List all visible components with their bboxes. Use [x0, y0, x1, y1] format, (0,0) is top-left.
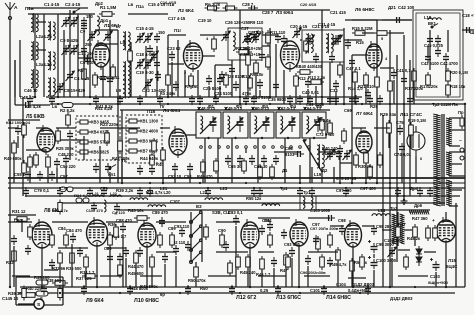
svg-text:Пр: Пр [458, 110, 464, 115]
junction 8 [269, 96, 271, 98]
IF cell box 2 [223, 112, 248, 138]
junction bead 36 [414, 286, 416, 288]
capacitor box C45b [435, 35, 441, 45]
diagonal arrow detector [303, 140, 322, 172]
resistor R13 2.2k [308, 80, 324, 85]
trimmer C15 4-15 [137, 33, 143, 43]
junction bead 3 [139, 103, 141, 105]
wire stub top 5 [77, 14, 79, 97]
resistor R47b [284, 252, 289, 268]
wire stub top 21 [259, 90, 261, 97]
junction bead 35 [367, 286, 369, 288]
capacitor fill 9 [329, 53, 335, 63]
wire run 22 [352, 54, 368, 56]
wire run 40 [8, 221, 32, 223]
svg-text:R17 220к: R17 220к [420, 84, 438, 89]
wire run 60 [44, 269, 58, 271]
wire stub top 23 [283, 70, 285, 104]
trimmer in T1 [335, 35, 341, 45]
resistor R10 470k [248, 75, 253, 91]
output transformer core [397, 212, 399, 246]
switch riser [195, 262, 197, 270]
resistor KB40 [297, 70, 313, 75]
capacitor fill 23 [157, 95, 163, 105]
wire left vertical from antenna [9, 20, 11, 287]
svg-text:R34 4,7к L20: R34 4,7к L20 [146, 190, 171, 195]
svg-text:R36: R36 [108, 222, 116, 227]
svg-text:L2а L2б: L2а L2б [36, 34, 52, 39]
capacitor C71 [336, 150, 342, 160]
svg-text:С42 100: С42 100 [398, 5, 415, 10]
wire stub bottom 26 [337, 261, 339, 287]
wire stub bottom 22 [285, 266, 287, 287]
switch BK1 [431, 24, 438, 29]
capacitor C84 470 [70, 233, 76, 243]
switch ladder wire b [201, 212, 203, 262]
wire run 9 [168, 34, 186, 36]
wire vertical x383 [382, 115, 384, 287]
svg-text:КВ2 4600: КВ2 4600 [140, 129, 159, 134]
junction bead 7 [269, 103, 271, 105]
wire stub bottom 11 [135, 264, 137, 287]
wire run 48 [362, 225, 374, 227]
wire run 63 [208, 275, 236, 277]
wire run 4 [60, 13, 74, 15]
wire run 42 [106, 221, 138, 223]
svg-text:С75: С75 [396, 120, 404, 125]
capacitor extra 3 [25, 171, 31, 181]
wire stub mid 4 [47, 168, 49, 183]
wire vertical x390 [389, 30, 391, 287]
wire stub top 33 [427, 46, 429, 58]
wire stub bottom 35 [445, 242, 447, 287]
IF cell box 3 [250, 112, 274, 138]
svg-text:КВ5 5700: КВ5 5700 [91, 140, 110, 145]
wire stub bottom 24 [298, 246, 300, 287]
wire run 30 [60, 139, 84, 141]
svg-text:С100 3000: С100 3000 [376, 258, 397, 263]
capacitor C45 0.025 [427, 35, 433, 45]
wire stub top 15 [197, 70, 199, 97]
capacitor bus top 9 [377, 95, 383, 105]
wire stub bottom 17 [235, 226, 237, 287]
wire run 12 [202, 55, 215, 57]
svg-text:+: + [432, 219, 435, 224]
svg-text:С90: С90 [218, 228, 226, 233]
wire stub mid 23 [388, 134, 390, 148]
wire run 26 [26, 149, 46, 151]
wire stub top 10 [145, 46, 147, 97]
capacitor C85 [77, 247, 83, 257]
power transformer Tr2 secondary 1 [446, 118, 452, 146]
tube L3 6K4 [281, 38, 300, 72]
svg-text:С80: С80 [14, 218, 22, 223]
coil in box [233, 32, 235, 50]
junction 23 [298, 286, 300, 288]
resistor R26 [28, 154, 33, 170]
wire vertical x322 [321, 10, 323, 104]
resistor R32 4.7k [58, 200, 62, 215]
svg-text:Л4 6Ж4: Л4 6Ж4 [163, 108, 180, 114]
capacitor bus mid 7 [297, 187, 303, 197]
svg-text:С20 4/15: С20 4/15 [300, 2, 317, 7]
coil L3a L3b [31, 69, 38, 89]
capacitor extra 14 [353, 95, 359, 105]
wire stub bottom 12 [146, 247, 148, 287]
resistor R4 160 [93, 72, 98, 88]
wire stub bottom 32 [414, 238, 416, 246]
svg-text:L23: L23 [220, 186, 228, 191]
svg-text:Д1Д2 ДВ03: Д1Д2 ДВ03 [390, 296, 413, 301]
capacitor C33 [333, 80, 339, 90]
capacitor C48 10 [22, 102, 32, 108]
capacitor fill 20 [327, 257, 333, 267]
svg-text:С89 470: С89 470 [152, 210, 169, 215]
wire stub bottom 2 [21, 219, 23, 232]
wire stub bottom 7 [96, 246, 98, 287]
wire top run y14 [28, 13, 95, 15]
wire run 31 [122, 127, 140, 129]
wire run 3 [36, 49, 46, 51]
resistor R50b 1k [350, 258, 355, 274]
wire run 62 [140, 275, 162, 277]
junction bead 5 [199, 103, 201, 105]
wire run 24 [8, 119, 40, 121]
junction bead 18 [299, 182, 301, 184]
junction bead 23 [103, 187, 105, 189]
capacitor C86 [107, 253, 113, 263]
junction 14 [121, 182, 123, 184]
svg-text:С78: С78 [60, 186, 68, 191]
svg-text:A: A [14, 5, 18, 11]
svg-text:С69: С69 [344, 108, 352, 113]
capacitor bus bottom 5 [229, 285, 235, 295]
svg-text:С21 4-15: С21 4-15 [312, 24, 330, 29]
junction 19 [41, 286, 43, 288]
junction 2 [57, 96, 59, 98]
svg-text:R29: R29 [370, 104, 378, 109]
box oscillator unit [413, 10, 463, 100]
trimmer C73 [344, 150, 350, 160]
wire stub bottom 4 [59, 264, 61, 283]
wire stub mid 8 [83, 136, 85, 160]
junction bead 15 [149, 182, 151, 184]
resistor fill 10 [214, 158, 219, 174]
junction bead 10 [361, 103, 363, 105]
svg-text:L3а L3б: L3а L3б [36, 62, 52, 67]
capacitor extra 7 [237, 155, 243, 165]
wire run 2 [36, 21, 46, 23]
wire stub top 29 [354, 83, 356, 104]
trimmer fill 1 [89, 31, 95, 41]
capacitor fill 11 [365, 89, 371, 99]
wire tap6 [449, 175, 465, 177]
capacitor extra 16 [407, 95, 413, 105]
svg-text:С28 7: С28 7 [262, 10, 274, 15]
capacitor C12 250 [81, 45, 87, 55]
wire stub bottom 30 [373, 270, 375, 287]
svg-text:Д21: Д21 [388, 5, 396, 10]
svg-text:Св 4,2к: Св 4,2к [26, 104, 42, 109]
resistor R48 2k [413, 224, 418, 240]
wire rect top [445, 212, 447, 220]
capacitor C53 [187, 163, 193, 173]
wire stub mid 11 [121, 160, 123, 183]
wire vertical x456 [455, 203, 457, 287]
resistor R2 8.2k pill [62, 103, 73, 108]
capacitor C103b [325, 215, 335, 221]
Tr1 winding a [303, 197, 305, 208]
svg-text:С79: С79 [100, 186, 108, 191]
svg-text:С48 220: С48 220 [58, 152, 74, 157]
resistor extra 18 [50, 232, 55, 248]
svg-text:R13 2,2к: R13 2,2к [308, 75, 326, 80]
junction bead 9 [335, 103, 337, 105]
wire stub bottom 1 [13, 246, 15, 287]
junction 1 [34, 96, 36, 98]
wire box inner v [429, 30, 431, 70]
coil L4b [48, 51, 55, 71]
resistor aux2 [433, 225, 438, 241]
wire stub mid 21 [339, 155, 341, 183]
wire stub top 9 [130, 42, 132, 97]
capacitor extra 19 [297, 95, 303, 105]
wire horizontal bus y97 [46, 96, 362, 98]
coil L7 [123, 31, 130, 51]
wire horizontal bus y203 [60, 202, 445, 204]
resistor R50 470k [194, 264, 199, 280]
resistor R34 pill b [83, 198, 89, 203]
junction bead 41 [299, 292, 301, 294]
resistor R19 220k [426, 72, 431, 88]
svg-text:С37: С37 [241, 26, 249, 31]
box KB resistors 2 dashed [126, 115, 162, 163]
wire run 64 [258, 275, 286, 277]
power plug circle 2 [460, 156, 464, 160]
tube L10 6N8S [138, 220, 156, 250]
svg-text:Тр1: Тр1 [280, 186, 288, 191]
wire vertical x35 [34, 14, 36, 97]
svg-text:6р: 6р [160, 292, 165, 297]
resistor fill 21 [320, 254, 325, 270]
wire tap4 [449, 151, 465, 153]
svg-text:250: 250 [85, 42, 93, 47]
svg-text:С98 280: С98 280 [376, 224, 392, 229]
capacitor extra 21 [213, 95, 219, 105]
wire run 44 [216, 221, 240, 223]
capacitor fill 17 [259, 225, 265, 235]
wire stub bottom 15 [175, 256, 177, 287]
capacitor extra 15 [367, 95, 373, 105]
junction 3 [89, 96, 91, 98]
svg-text:R20 0,1М: R20 0,1М [450, 70, 468, 75]
capacitor box C46b [435, 47, 441, 57]
capacitor extra 12 [105, 163, 111, 173]
svg-text:С41 0,1: С41 0,1 [396, 68, 411, 73]
resistor R29 24k [387, 120, 392, 136]
svg-text:С94: С94 [262, 218, 270, 223]
electrolytic C103 [433, 261, 440, 271]
svg-text:П1г: П1г [174, 28, 181, 33]
choke L21 left [92, 195, 103, 197]
wire box inner v2 [447, 30, 449, 52]
svg-text:С97 400: С97 400 [336, 188, 352, 193]
capacitor extra 2 [149, 165, 155, 175]
box top strip [214, 3, 227, 11]
box IF transformer T1 [302, 30, 344, 62]
svg-text:Тр3: Тр3 [390, 206, 398, 211]
wire stub top 27 [329, 62, 331, 104]
svg-text:8103: 8103 [285, 152, 295, 157]
resistor R17 220k [412, 68, 417, 84]
wire run 8 [128, 13, 168, 15]
capacitor bus mid 3 [101, 187, 107, 197]
wire stub mid 15 [202, 173, 204, 183]
junction bead 38 [119, 292, 121, 294]
svg-text:R9 110: R9 110 [250, 20, 264, 25]
svg-text:С103: С103 [430, 274, 441, 279]
capacitor fill 13 [49, 259, 55, 269]
capacitor bus mid 5 [205, 187, 211, 197]
antenna jack [8, 16, 11, 19]
wire stub top 31 [393, 80, 395, 104]
resistor R15 [352, 31, 368, 36]
wire stub mid 10 [109, 172, 111, 183]
wire run 49 [382, 229, 392, 231]
tube L9 6K4 [87, 217, 108, 249]
resistor R21 810 [364, 72, 369, 88]
capacitor fill 2 [155, 71, 161, 81]
wire run 17 [344, 39, 362, 41]
capacitor C68 8103 [294, 151, 304, 157]
svg-text:КВ4 6375: КВ4 6375 [91, 130, 110, 135]
junction 21 [146, 286, 148, 288]
tube L6 6N8S [366, 41, 382, 71]
coil L24 [372, 214, 390, 216]
svg-text:R47: R47 [398, 222, 406, 227]
svg-text:R41 8,2к: R41 8,2к [96, 104, 114, 109]
resistor R30 30k [364, 150, 369, 166]
wire stub mid 3 [29, 168, 31, 183]
wire horizontal bus y210 [118, 209, 430, 211]
svg-text:R28 2,4к: R28 2,4к [314, 118, 331, 123]
wire tap2 [449, 129, 465, 131]
capacitor C42 100 [393, 17, 403, 23]
wire run 65 [304, 275, 330, 277]
trimmer C4 4-15 [67, 71, 73, 81]
capacitor bus bottom 6 [275, 285, 281, 295]
resistor R44b [134, 250, 139, 266]
resistor extra 12 [158, 232, 163, 248]
wire stub top 19 [247, 46, 249, 97]
wire horizontal bus y110 [120, 109, 330, 111]
wire loop bottom-left d [44, 304, 63, 306]
capacitor extra 10 [273, 155, 279, 165]
capacitor C48 220 [63, 155, 69, 165]
svg-text:КВ40 440/430: КВ40 440/430 [296, 64, 323, 69]
resistor top strip 2 [223, 6, 238, 10]
junction bead 16 [199, 182, 201, 184]
wire run 53 [156, 251, 176, 253]
svg-text:С44 4700: С44 4700 [440, 61, 458, 66]
wire stub top 6 [83, 33, 85, 97]
resistor R40 680k [12, 140, 17, 156]
junction bead 21 [389, 182, 391, 184]
wire run 20 [382, 19, 412, 21]
resistor R34 1.7 [84, 254, 89, 270]
trimmer C2 4-15 [71, 17, 77, 27]
wire vertical x344 [343, 28, 345, 104]
svg-text:R50 470к: R50 470к [188, 278, 206, 283]
tube L14 6N8S [345, 220, 362, 250]
resistor fill 17 [170, 232, 175, 248]
wire stub bottom 5 [71, 244, 73, 287]
svg-text:150: 150 [158, 30, 166, 35]
capacitor fill 30 [87, 187, 93, 197]
capacitor C89 [159, 217, 165, 227]
capacitor fill 14 [137, 247, 143, 257]
resistor R14 1.0 [353, 69, 358, 85]
wire stub top 26 [315, 86, 317, 104]
trimmer fill 3 [151, 51, 157, 61]
wire run 27 [56, 127, 76, 129]
junction bead 40 [239, 292, 241, 294]
svg-text:R48 2к: R48 2к [407, 236, 421, 241]
capacitor KB 1000 [15, 125, 21, 135]
wire run 29 [100, 127, 122, 129]
svg-text:С21 415: С21 415 [330, 10, 347, 15]
box oscillator inner [416, 13, 460, 97]
wire stub mid 24 [401, 153, 403, 183]
wire stub top 18 [231, 60, 233, 97]
wire C48 to bus [32, 104, 50, 106]
junction 10 [343, 103, 345, 105]
resistor fill 6 [388, 78, 393, 94]
resistor R7 160 [189, 73, 194, 89]
tube L12 6G2 [241, 219, 259, 251]
wire vertical x215 [214, 65, 216, 97]
svg-text:С20 4-15: С20 4-15 [290, 24, 308, 29]
junction bead 42 [359, 292, 361, 294]
svg-text:Ф5: Ф5 [316, 104, 323, 109]
resistor extra 4 [152, 138, 157, 154]
resistor fill 16 [114, 224, 119, 240]
capacitor bus top 4 [137, 95, 143, 105]
capacitor fill 3 [173, 81, 179, 91]
capacitor fill 12 [25, 245, 31, 255]
svg-text:Л10 6Н8С: Л10 6Н8С [134, 298, 159, 304]
capacitor fill 21 [339, 225, 345, 235]
wire vertical x122 [121, 110, 123, 183]
trimmer C19 8-30 [137, 59, 143, 69]
resistor extra 10 [258, 164, 263, 180]
resistor R19b 0.1M [409, 122, 414, 138]
wire to Sh [462, 29, 474, 31]
trimmer fill 6 [307, 35, 313, 45]
capacitor fill 25 [307, 95, 313, 105]
svg-text:R32: R32 [6, 260, 14, 265]
coil L2a L2b [31, 41, 38, 61]
wire stub top 28 [335, 91, 337, 104]
wire stub bottom 13 [151, 268, 153, 287]
wire stub IF box outs [204, 138, 206, 183]
svg-text:R39 2,2к: R39 2,2к [116, 188, 134, 193]
trimmer C72 [327, 150, 333, 160]
trimmer C3 4-15 [71, 45, 77, 55]
svg-text:С79 0,1: С79 0,1 [34, 188, 50, 193]
power plug circle 1 [460, 148, 464, 152]
capacitor fill 22 [117, 95, 123, 105]
